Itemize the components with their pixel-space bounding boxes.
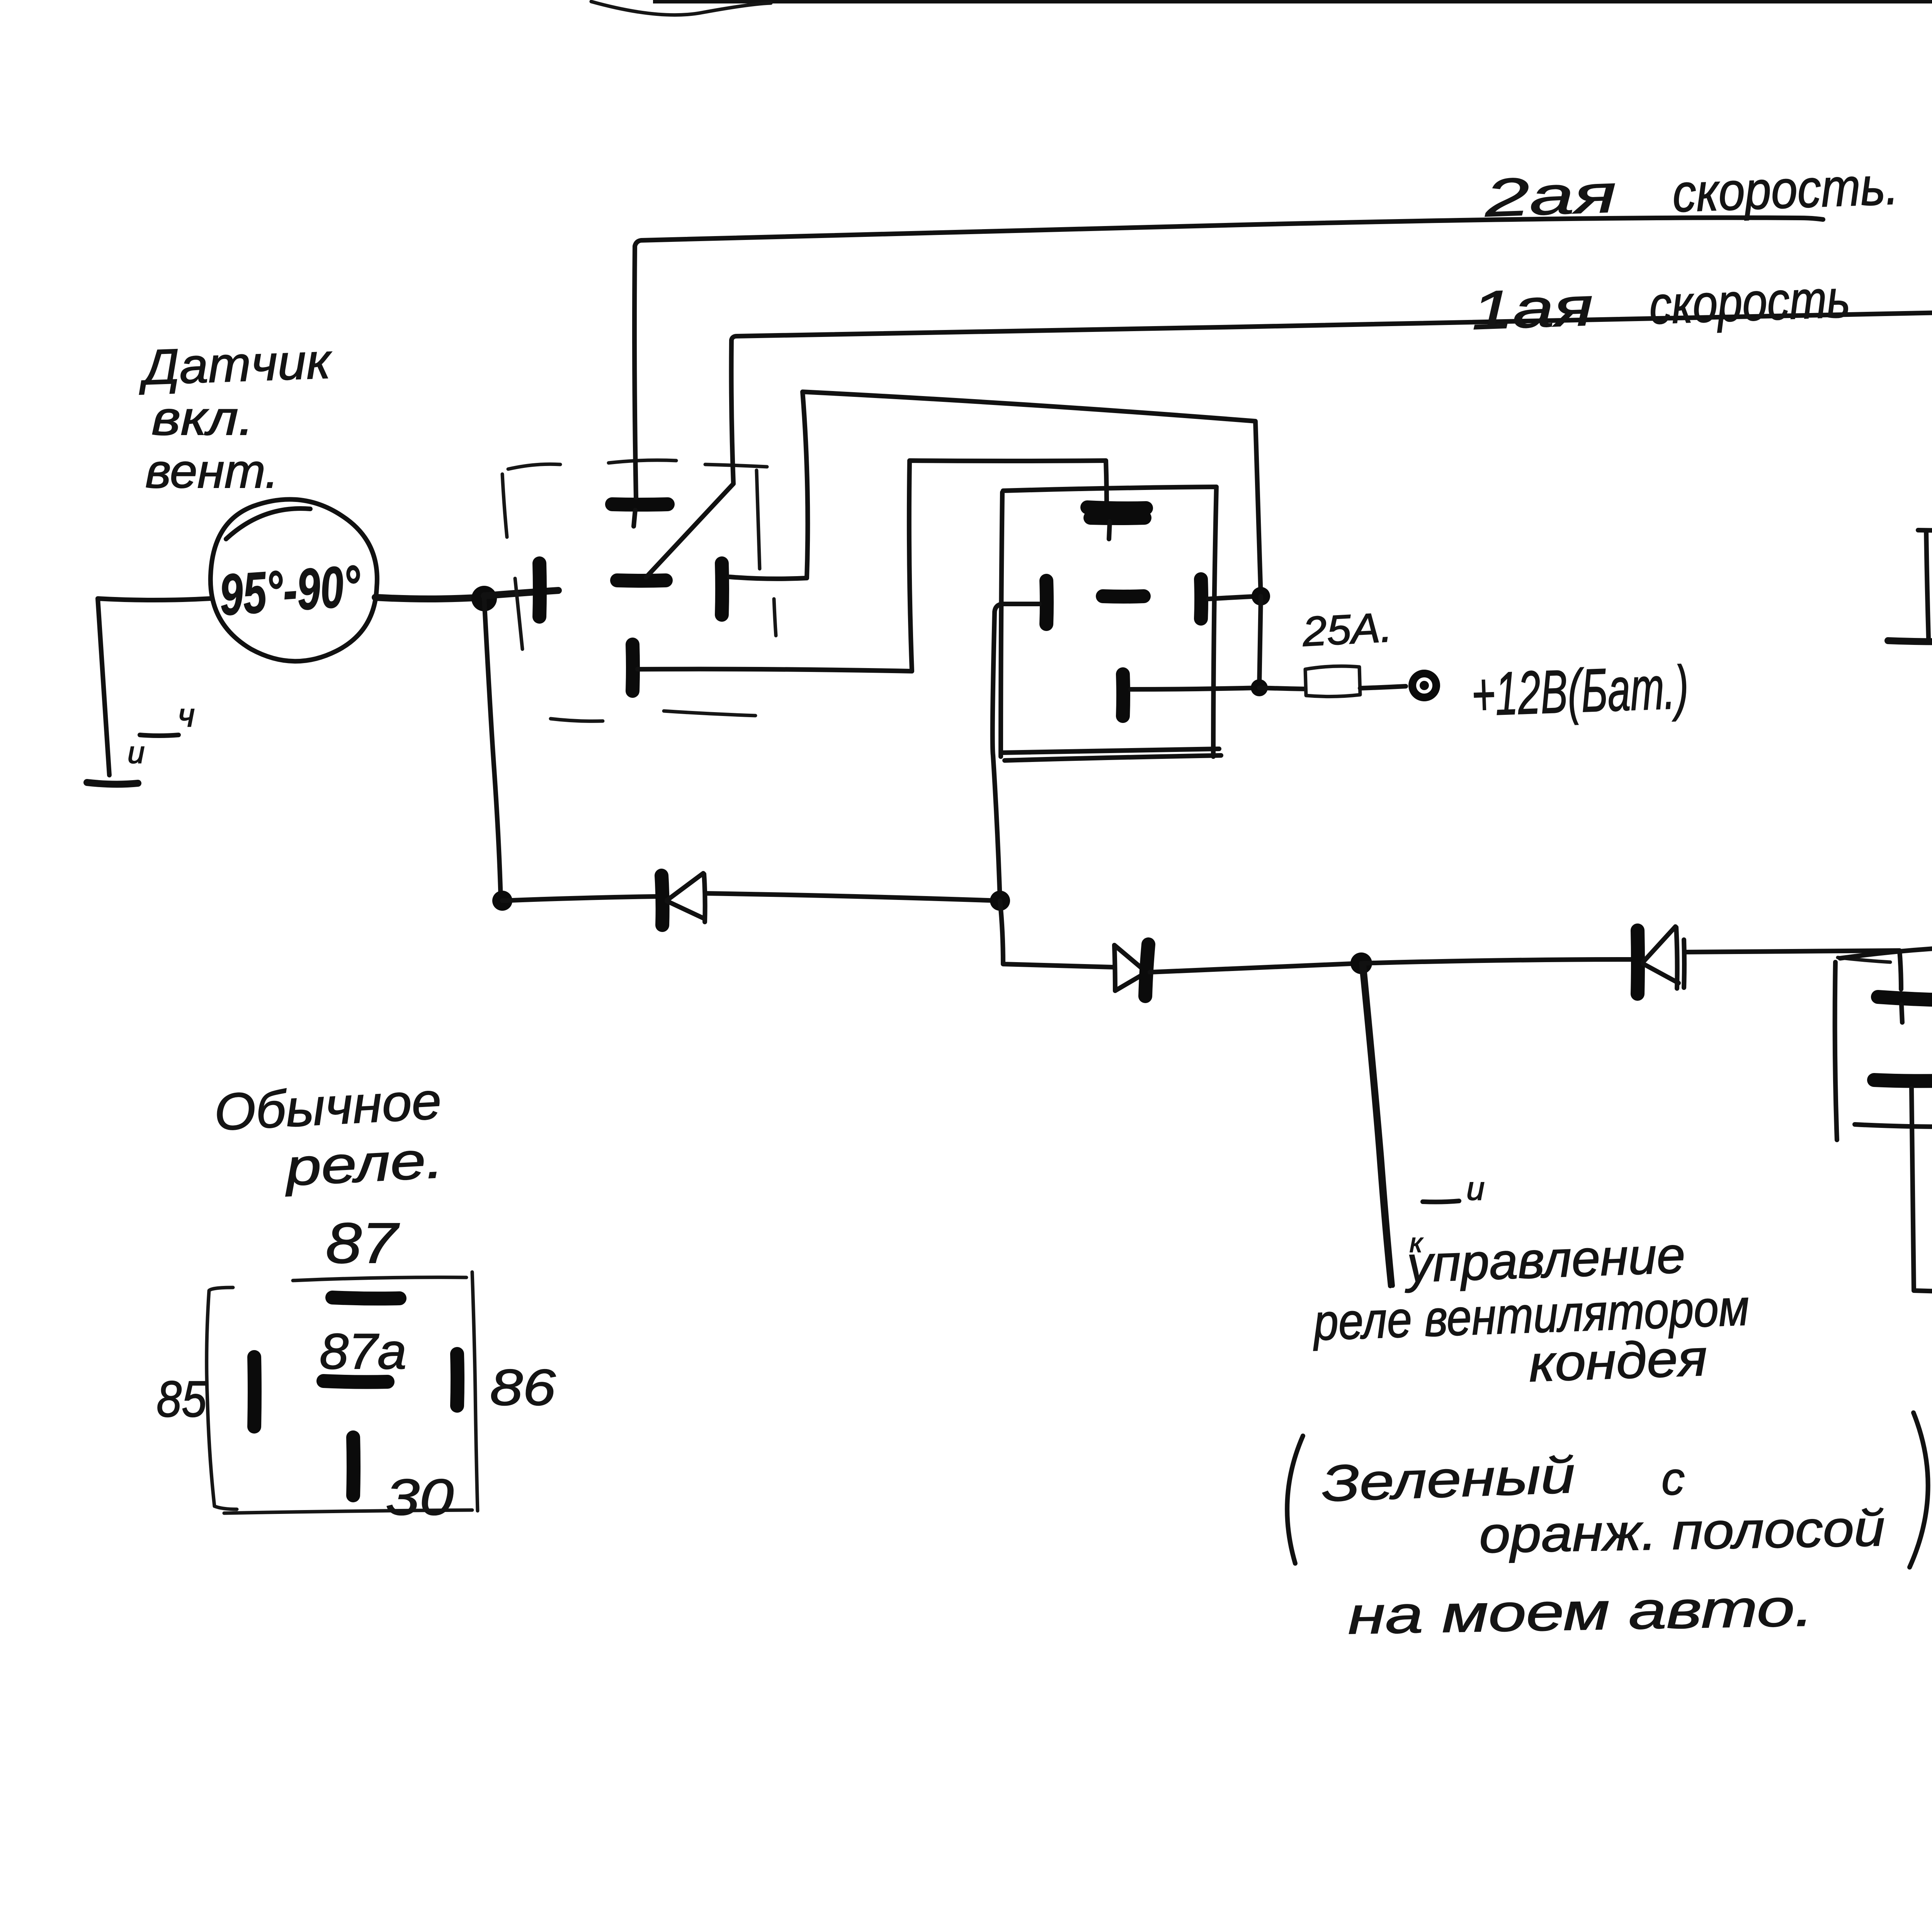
relay K1 pin 86 (left pin bar) [539,563,540,617]
relay K2 housing [1001,487,1216,757]
legend box bottom line [224,1510,472,1513]
wire color note parenthesis left [1287,1436,1303,1563]
relay K2 coil pin (bottom bar) [1123,674,1123,716]
wire node B0 to diode D1 [502,896,657,901]
svg-text:1ая: 1ая [1471,276,1594,341]
node A [471,586,497,611]
relay K3 pin 85 (bottom-left bar) [1874,1080,1932,1081]
wire node to fuse [1259,688,1305,689]
wire 2nd speed: K1 pin87 up and right to fan [634,218,1823,498]
wire color note parenthesis right [1910,1413,1928,1567]
node C [1350,952,1372,974]
wire overlap near K3 corner [1838,957,1890,962]
relay K2 pin 30 (right bar) [1201,579,1201,619]
wire node A to relay K1 pin 86 [484,590,558,596]
svg-text:оранж. полосой: оранж. полосой [1479,1500,1885,1563]
svg-text:85: 85 [156,1371,207,1427]
wire sensor left lead [98,599,211,775]
svg-text:95°-90°: 95°-90° [218,553,363,628]
fuse 25A body [1305,666,1360,697]
wire K2 coil pin to node lower [1131,688,1259,689]
relay K1 switch arm [646,484,733,577]
relay K1 dashed housing [502,460,776,721]
wire K1 coil to relay K2 top [638,461,1107,671]
svg-text:скорость: скорость [1648,269,1851,335]
legend pin 87a bar [323,1381,388,1382]
node B0 (bottom of node-A drop) [492,891,512,911]
wire D3 to relay K3 [1685,951,1901,989]
svg-text:и: и [1466,1170,1485,1207]
svg-text:вент.: вент. [145,445,279,498]
legend box left bracket [207,1287,237,1509]
legend pin 86 bar [457,1354,457,1406]
temperature sensor B1 circle [211,499,377,661]
legend pin 30 bar [353,1437,354,1495]
svg-text:кондея: кондея [1528,1329,1708,1392]
svg-text:2ая: 2ая [1483,164,1617,228]
ground (fan) [1888,530,1932,692]
relay K1 coil pin (bottom bar) [633,645,633,691]
svg-text:87a: 87a [320,1323,406,1379]
wire fuse to terminal [1360,686,1406,688]
svg-text:на моем авто.: на моем авто. [1347,1578,1814,1645]
node +12 upper [1252,587,1270,605]
relay K1 pin 87 (top contact bar) [612,504,668,505]
ground (sensor) bar [87,782,138,784]
relay K2 housing bottom [1002,749,1221,760]
wire sensor to node A (thick) [375,597,481,599]
relay K3 pin 87 (top-left bar) [1878,997,1932,1000]
diode D3 (cathode left, doubled) [1638,927,1684,994]
wire D2 to node C [1150,963,1360,972]
relay K3 housing [1835,946,1932,1140]
relay K1 pin 30 (right pin bar) [722,563,722,615]
wire node A down to diode row [484,599,501,901]
control ground drop from node C [1361,963,1393,1286]
ground (control) annotation [1423,1201,1459,1202]
svg-text:Датчик: Датчик [137,333,333,395]
legend box top line [293,1277,466,1281]
terminal +12V(bat) ring [1412,673,1436,697]
relay K2 middle contact dash [1103,596,1144,597]
svg-text:86: 86 [490,1359,556,1416]
svg-text:30: 30 [386,1469,454,1526]
svg-text:с: с [1662,1453,1685,1505]
wire K1 pin30 to +12 feed (up and over) [730,392,1261,596]
node B [990,891,1010,911]
scanner top border [591,0,1932,15]
diode D2 (cathode right) [1114,944,1148,996]
wire D1 to node B [706,893,999,901]
svg-text:и: и [128,735,145,770]
wire node B down then right to diode D2 [1000,901,1113,967]
ground (sensor) annotation [140,735,179,736]
wire node link vertical [1259,596,1261,688]
svg-text:вкл.: вкл. [151,392,254,445]
relay K2 pin 87 (top bar, doubled) [1087,507,1146,518]
legend box right bracket [472,1272,478,1511]
svg-text:реле.: реле. [282,1131,445,1197]
node +12 lower [1251,679,1268,696]
sensor label "Датчик вкл. вент." [137,333,333,498]
svg-text:Зеленый: Зеленый [1321,1446,1576,1512]
wire 1st speed: from K1 arm up and right to fan [731,312,1932,484]
relay K2 pin 86 (left bar) [1046,581,1047,624]
wire K2 pin30 to node [1209,596,1259,599]
svg-text:87: 87 [326,1211,400,1275]
diode D1 (cathode left) [662,873,705,925]
legend pin 87 bar [332,1298,400,1299]
wire node C to diode D3 [1361,959,1634,963]
relay K1 pin 87a (middle contact bar) [617,580,666,581]
wire K3 pin85 down to ignition terminal [1912,1088,1932,1293]
svg-text:+12В(Бат.): +12В(Бат.) [1470,653,1690,729]
svg-text:скорость.: скорость. [1672,156,1900,223]
svg-text:25А.: 25А. [1301,604,1393,655]
svg-text:Обычное: Обычное [213,1072,443,1141]
legend pin 85 bar [254,1357,255,1427]
svg-text:ч: ч [178,697,195,734]
wire K2 pin86 to left edge then down to node B [993,604,1039,901]
